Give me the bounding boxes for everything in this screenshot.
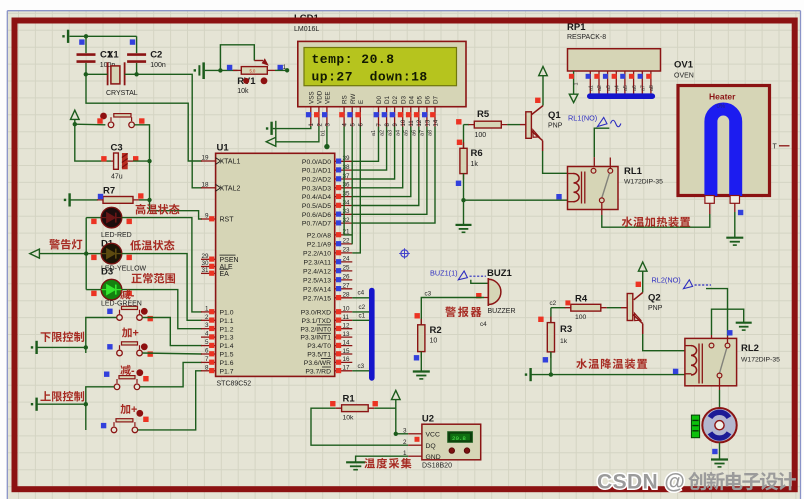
power terminal (Q1 collector) <box>539 67 548 76</box>
svg-text:BUZ1: BUZ1 <box>487 268 513 279</box>
svg-text:R7: R7 <box>103 185 115 196</box>
svg-text:14: 14 <box>433 119 439 126</box>
LCD pin 1 VSS <box>306 91 316 126</box>
svg-text:29: 29 <box>201 253 209 260</box>
svg-text:LM016L: LM016L <box>294 26 319 33</box>
svg-text:13: 13 <box>425 119 431 126</box>
wire: C1 / crystal left to XTAL1 <box>86 73 108 75</box>
U1 pin 15 P3.5/T1 <box>307 348 352 359</box>
wire: RS to P2.0 <box>344 127 352 235</box>
U1 pin 29 PSEN <box>201 253 239 264</box>
label 下限控制 <box>41 331 85 342</box>
LCD pin 5 RW <box>347 94 357 127</box>
svg-text:PNP: PNP <box>648 305 663 312</box>
RP1 pin 6 <box>620 71 629 94</box>
svg-text:RST: RST <box>220 217 235 224</box>
svg-text:BUZZER: BUZZER <box>488 308 516 315</box>
bus bar (P2/P3 nets) <box>369 291 375 378</box>
svg-text:11: 11 <box>343 314 350 321</box>
push button S4 加+ <box>111 427 117 433</box>
label 温度采集 <box>364 458 411 469</box>
svg-text:a1: a1 <box>589 85 595 91</box>
svg-text:10k: 10k <box>343 415 355 422</box>
svg-text:a6: a6 <box>412 130 418 136</box>
crystal X1 <box>107 62 109 85</box>
svg-text:-: - <box>131 290 135 302</box>
wire: ground rail to C1/C2 tops <box>70 35 137 37</box>
U1 pin 18 XTAL2 <box>201 181 240 192</box>
U1 pin 23 P2.2/A10 <box>303 247 352 258</box>
svg-text:P0.5/AD5: P0.5/AD5 <box>302 203 331 210</box>
svg-text:P1.0: P1.0 <box>220 310 234 317</box>
svg-text:XTAL2: XTAL2 <box>220 185 241 192</box>
wire: LCD D5 to P0.5 <box>352 127 419 206</box>
wire: button S1 to P1.4 <box>142 318 202 346</box>
svg-text:D1: D1 <box>384 95 391 104</box>
U1 pin 17 P3.7/RD <box>305 365 352 376</box>
RP1 pin 9 <box>646 71 655 94</box>
wire: heater right terminal to ground <box>734 203 736 212</box>
LCD pin 4 RS <box>339 95 349 126</box>
LED D3 (LED-YELLOW) <box>101 243 122 264</box>
svg-text:P2.2/A10: P2.2/A10 <box>303 251 331 258</box>
wire: reset button right / RST node <box>134 125 202 219</box>
svg-text:VDD: VDD <box>317 90 324 104</box>
svg-text:GND: GND <box>426 454 441 461</box>
svg-text:100: 100 <box>575 314 587 321</box>
wire: R1 left to DQ <box>311 408 408 445</box>
svg-text:23: 23 <box>343 247 351 254</box>
svg-text:P1.3: P1.3 <box>220 335 234 342</box>
potentiometer RV1 <box>254 60 263 62</box>
resistor R2 <box>420 319 422 358</box>
svg-text:CRYSTAL: CRYSTAL <box>106 90 138 97</box>
U1 pin 39 P0.0/AD0 <box>302 155 352 166</box>
svg-text:P0.0/AD0: P0.0/AD0 <box>302 159 331 166</box>
U1 pin 3 P1.2 <box>201 322 234 333</box>
svg-text:7: 7 <box>205 356 209 363</box>
wire: D3 cathode to P1.1 <box>122 254 202 321</box>
push button S2 加+ <box>117 350 123 356</box>
svg-text:RL2(NO): RL2(NO) <box>652 276 681 285</box>
U1 pin 19 XTAL1 <box>201 155 240 166</box>
label 上限控制 <box>40 391 84 402</box>
push button S1 减- <box>117 315 123 321</box>
U1 pin 10 P3.0/RXD <box>301 306 353 317</box>
svg-text:P0.1/AD1: P0.1/AD1 <box>302 168 331 175</box>
svg-text:10: 10 <box>430 338 438 345</box>
svg-text:R4: R4 <box>575 294 588 305</box>
svg-text:P2.0/A8: P2.0/A8 <box>307 233 331 240</box>
svg-text:VEE: VEE <box>325 91 332 104</box>
wire: power to reset button <box>75 123 106 126</box>
wire: P3.7 to bus, net c3 <box>352 370 369 372</box>
U1 pin 5 P1.4 <box>201 339 234 350</box>
U2 pin 3 VCC <box>403 428 440 439</box>
RP1 pin 4 <box>603 71 612 94</box>
ground terminal (crystal rail) <box>62 35 64 37</box>
svg-text:18: 18 <box>201 181 209 188</box>
U1 pin 28 P2.7/A15 <box>303 292 352 303</box>
svg-text:RL2: RL2 <box>741 343 759 354</box>
svg-text:31: 31 <box>201 267 209 274</box>
svg-text:RESPACK-8: RESPACK-8 <box>567 34 606 41</box>
svg-text:CSDN @: CSDN @ <box>597 471 685 494</box>
wire: VDD to power <box>276 126 319 142</box>
U1 pin 6 P1.5 <box>201 348 234 359</box>
wire: RW to P2.1 <box>351 127 353 244</box>
svg-text:RW: RW <box>350 94 357 104</box>
svg-text:temp: 20.8: temp: 20.8 <box>312 52 395 67</box>
LED D1 (LED-RED) <box>101 207 122 228</box>
svg-text:D3: D3 <box>101 267 113 278</box>
transistor Q2 <box>634 293 643 300</box>
wire: RL2 NO contact <box>706 289 728 336</box>
ground (oven) <box>726 237 743 239</box>
svg-text:25: 25 <box>343 265 351 272</box>
wire: P3.0 to bus, net c2 <box>352 311 369 313</box>
svg-text:Q2: Q2 <box>648 293 661 304</box>
resistor R7 <box>69 199 98 201</box>
svg-text:2: 2 <box>403 439 407 446</box>
wire: button S2 to P1.5 <box>142 353 202 354</box>
U1 pin 13 P3.3/INT1 <box>300 331 352 342</box>
svg-text:a2: a2 <box>597 85 603 91</box>
power terminal (U2 VCC) <box>392 390 401 399</box>
motor (cooling) <box>702 408 736 442</box>
svg-text:P2.7/A15: P2.7/A15 <box>303 295 331 302</box>
svg-text:up:27 down:18: up:27 down:18 <box>312 70 428 85</box>
wire: R4 to Q2 base <box>607 307 621 309</box>
svg-text:17: 17 <box>343 365 351 372</box>
svg-text:+: + <box>131 404 137 416</box>
svg-text:C3: C3 <box>111 143 123 154</box>
svg-text:P1.7: P1.7 <box>220 368 234 375</box>
U1 pin 2 P1.1 <box>201 314 234 325</box>
power terminal (LCD VDD) <box>266 137 276 146</box>
svg-text:a7: a7 <box>640 85 646 91</box>
svg-text:16: 16 <box>343 356 351 363</box>
label 减- (button 1) <box>120 289 135 301</box>
wire: VEE stub <box>326 126 328 147</box>
U1 pin 9 RST <box>201 213 234 224</box>
svg-text:W172DIP-35: W172DIP-35 <box>624 179 663 186</box>
svg-text:1k: 1k <box>560 338 568 345</box>
svg-text:P2.6/A14: P2.6/A14 <box>303 286 331 293</box>
svg-text:RL1(NO): RL1(NO) <box>568 114 597 123</box>
svg-text:R5: R5 <box>477 109 490 120</box>
svg-text:10: 10 <box>343 306 351 313</box>
push button (reset) <box>108 122 114 128</box>
svg-text:P0.4/AD4: P0.4/AD4 <box>302 194 331 201</box>
wire: ground rail to RL2 coil <box>551 374 685 376</box>
svg-text:P3.0/RXD: P3.0/RXD <box>301 310 331 317</box>
svg-text:VCC: VCC <box>426 431 440 438</box>
power terminal down (RP1 pin1) <box>569 94 578 102</box>
U1 pin 35 P0.4/AD4 <box>302 190 352 201</box>
svg-text:0%: 0% <box>717 104 726 110</box>
wire: LCD D3 to P0.3 <box>352 127 402 188</box>
ground (below R6) <box>463 200 465 225</box>
LCD pin 2 VDD <box>314 90 324 126</box>
U1 pin 36 P0.3/AD3 <box>302 182 352 193</box>
U1 pin 14 P3.4/T0 <box>307 339 352 350</box>
label 警报器 <box>445 306 481 317</box>
wire: RL2 common to motor <box>719 378 721 390</box>
LCD pin 12 D5 <box>414 95 424 126</box>
svg-text:a8: a8 <box>428 130 434 136</box>
svg-text:D4: D4 <box>408 95 415 104</box>
wire: R3 to ground rail <box>550 352 552 375</box>
svg-text:3: 3 <box>403 428 407 435</box>
wire: LCD D1 to P0.1 <box>352 127 386 171</box>
svg-text:c3: c3 <box>425 290 432 297</box>
svg-text:EA: EA <box>220 271 230 278</box>
ground terminal (下限控制) <box>31 346 33 348</box>
resistor R5 <box>464 124 470 126</box>
svg-text:1: 1 <box>205 305 209 312</box>
U2 buttons <box>449 448 454 453</box>
svg-text:X1: X1 <box>107 50 119 61</box>
wire: P2.7 to bus, net c4 <box>352 297 369 299</box>
svg-text:OVEN: OVEN <box>674 73 694 80</box>
U1 pin 26 P2.5/A13 <box>303 274 352 285</box>
wire: R5 to Q1 base <box>507 124 520 126</box>
svg-text:P3.5/T1: P3.5/T1 <box>307 352 331 359</box>
LCD pin 13 D6 <box>422 95 432 126</box>
svg-text:P2.5/A13: P2.5/A13 <box>303 278 331 285</box>
U1 pin 21 P2.0/A8 <box>307 229 352 240</box>
LCD pin 7 D0 <box>374 95 384 126</box>
svg-text:RL1: RL1 <box>624 166 643 177</box>
wire: D1 cathode to P1.0 <box>122 218 202 312</box>
svg-text:a6: a6 <box>632 85 638 91</box>
resistor R1 <box>336 407 375 409</box>
svg-text:R1: R1 <box>343 394 356 405</box>
ground terminal (RV1 left) <box>194 69 196 71</box>
wire: RV1 wiper loop <box>220 45 254 71</box>
svg-text:DS18B20: DS18B20 <box>422 463 452 470</box>
svg-text:a1: a1 <box>371 130 377 136</box>
RP1 pin 3 <box>594 71 603 94</box>
LCD pin 14 D7 <box>430 95 440 126</box>
label 正常范围 <box>131 273 175 284</box>
svg-text:P2.1/A9: P2.1/A9 <box>307 242 331 249</box>
wire: VSS to ground <box>273 126 311 129</box>
svg-text:OV1: OV1 <box>674 60 694 71</box>
svg-text:P1.5: P1.5 <box>220 352 234 359</box>
svg-text:47u: 47u <box>111 174 123 181</box>
svg-text:P3.1/TXD: P3.1/TXD <box>302 318 332 325</box>
relay RL1 <box>568 167 619 210</box>
svg-text:R2: R2 <box>430 325 442 336</box>
svg-text:D2: D2 <box>392 95 399 104</box>
wire: C2 / crystal right to XTAL2 <box>125 73 137 75</box>
svg-text:PSEN: PSEN <box>220 257 239 264</box>
svg-text:20.8: 20.8 <box>452 435 466 442</box>
ground (R2) <box>413 370 430 372</box>
svg-text:26: 26 <box>343 274 351 281</box>
wire: button S4 to P1.7 <box>138 371 202 430</box>
RP1 pin 7 <box>629 71 638 94</box>
svg-text:D7: D7 <box>433 95 440 104</box>
U1 pin 38 P0.1/AD1 <box>302 164 352 175</box>
heater element <box>711 109 736 196</box>
U1 pin 11 P3.1/TXD <box>302 314 353 325</box>
svg-text:D5: D5 <box>416 95 423 104</box>
label 水温加热装置 <box>622 216 690 227</box>
capacitor C1 <box>85 36 87 53</box>
svg-text:c1: c1 <box>359 312 366 319</box>
heater terminals <box>705 196 714 204</box>
wire: Q2 emitter to RL2 coil <box>642 324 644 334</box>
wire: R6 to ground / relay coil <box>463 174 465 201</box>
push button S3 减- <box>114 384 120 390</box>
svg-text:P2.3/A11: P2.3/A11 <box>304 260 332 267</box>
U2 pin 2 DQ <box>403 439 436 450</box>
wire: LCD D4 to P0.4 <box>352 127 411 197</box>
U1 pin 7 P1.6 <box>201 356 234 367</box>
ground (U2) <box>346 461 365 463</box>
svg-text:6: 6 <box>205 348 209 355</box>
wire: LCD D6 to P0.6 <box>352 127 427 215</box>
svg-text:5.0: 5.0 <box>250 69 256 74</box>
wire: U2 GND to ground <box>356 456 409 462</box>
svg-text:P3.7/RD: P3.7/RD <box>305 368 331 375</box>
svg-text:P3.4/T0: P3.4/T0 <box>307 343 331 350</box>
svg-text:a2: a2 <box>379 130 385 136</box>
label 减- (button 3) <box>120 365 135 377</box>
capacitor C2 <box>136 36 138 53</box>
wire: LED anode rail <box>39 253 86 255</box>
svg-text:P3.2/INT0: P3.2/INT0 <box>300 326 331 333</box>
svg-text:Heater: Heater <box>709 92 736 102</box>
svg-text:C2: C2 <box>150 50 162 61</box>
wire: RL1 common to heater <box>601 203 603 215</box>
wire: E to P2.2 <box>352 127 360 253</box>
svg-text:13: 13 <box>343 331 351 338</box>
U1 pin 8 P1.7 <box>201 364 234 375</box>
svg-text:P1.2: P1.2 <box>220 326 234 333</box>
wire: C3 right to RST node <box>133 160 150 162</box>
LCD pin net labels <box>321 130 434 136</box>
svg-text:c3: c3 <box>358 363 365 370</box>
bus bar (RP1) <box>590 93 653 99</box>
origin marker <box>401 250 408 257</box>
label 水温降温装置 <box>576 358 647 369</box>
svg-text:D6: D6 <box>425 95 432 104</box>
svg-text:2: 2 <box>205 314 209 321</box>
svg-text:1k: 1k <box>471 161 479 168</box>
svg-text:c4: c4 <box>358 290 365 297</box>
svg-text:a5: a5 <box>404 130 410 136</box>
LCD pin 10 D3 <box>398 95 408 126</box>
label 加+ (button 2) <box>122 327 139 339</box>
RP1 pin 8 <box>638 71 647 94</box>
svg-text:+: + <box>133 328 139 340</box>
LCD pin 3 VEE <box>322 91 332 126</box>
svg-text:U1: U1 <box>217 143 230 154</box>
RP1 pin 5 <box>612 71 621 94</box>
wire: RL1 NO contact <box>594 128 609 157</box>
microcontroller U1 body <box>216 153 335 376</box>
svg-text:a8: a8 <box>649 85 655 91</box>
svg-text:a4: a4 <box>395 130 401 136</box>
wire: R5/R6 junction <box>463 125 465 149</box>
label 高温状态 <box>136 204 180 215</box>
LCD screen <box>304 48 457 86</box>
svg-text:T: T <box>773 144 778 151</box>
U1 pin 24 P2.3/A11 <box>304 256 353 267</box>
U1 pin 12 P3.2/INT0 <box>300 323 352 334</box>
svg-text:15: 15 <box>343 348 351 355</box>
svg-text:P0.7/AD7: P0.7/AD7 <box>302 221 331 228</box>
transistor Q1 <box>531 106 543 116</box>
relay RL2 <box>685 338 737 385</box>
LCD pin 8 D1 <box>382 95 392 126</box>
svg-text:12: 12 <box>343 323 351 330</box>
resistor R3 <box>550 317 552 358</box>
svg-text:RS: RS <box>342 95 349 104</box>
RP1 pin 2 <box>586 71 595 94</box>
svg-text:P0.3/AD3: P0.3/AD3 <box>302 185 331 192</box>
svg-text:P1.1: P1.1 <box>220 318 234 325</box>
svg-text:22: 22 <box>343 238 351 245</box>
svg-text:a5: a5 <box>623 85 629 91</box>
svg-text:24: 24 <box>343 256 351 263</box>
svg-text:8: 8 <box>205 364 209 371</box>
svg-text:28: 28 <box>343 292 351 299</box>
svg-text:R6: R6 <box>471 148 483 159</box>
ground (motor) <box>711 458 728 460</box>
svg-text:c4: c4 <box>480 321 487 328</box>
svg-text:RP1: RP1 <box>567 22 586 33</box>
svg-text:P1.4: P1.4 <box>220 343 234 350</box>
svg-text:P3.6/WR: P3.6/WR <box>304 360 331 367</box>
svg-text:STC89C52: STC89C52 <box>217 381 252 388</box>
U2 pin 1 GND <box>403 450 441 461</box>
svg-text:12: 12 <box>417 119 423 126</box>
svg-text:R3: R3 <box>560 324 572 335</box>
U1 pin 4 P1.3 <box>201 331 234 342</box>
label 加+ (button 4) <box>120 404 137 416</box>
svg-text:VSS: VSS <box>308 91 315 104</box>
wire: ground to RV1 left <box>205 69 238 71</box>
svg-text:a3: a3 <box>387 130 393 136</box>
svg-text:BUZ1(1): BUZ1(1) <box>430 268 458 277</box>
svg-text:P2.4/A12: P2.4/A12 <box>303 269 331 276</box>
svg-text:c2: c2 <box>550 300 557 307</box>
power terminal 警告灯 arrow <box>30 249 40 258</box>
svg-text:3: 3 <box>205 322 209 329</box>
svg-text:E: E <box>358 100 365 104</box>
LCD pin 9 D2 <box>390 95 400 126</box>
wire: R7 right to RST node <box>139 199 150 201</box>
svg-text:9: 9 <box>205 213 209 220</box>
U1 pin 34 P0.5/AD5 <box>302 199 352 210</box>
svg-text:a7: a7 <box>420 130 426 136</box>
ground terminal (LCD VSS) <box>266 127 268 129</box>
svg-text:W172DIP-35: W172DIP-35 <box>741 357 780 364</box>
U1 pin 37 P0.2/AD2 <box>302 173 352 184</box>
svg-text:14: 14 <box>343 339 351 346</box>
capacitor C3 <box>75 124 111 161</box>
svg-text:XTAL1: XTAL1 <box>220 159 241 166</box>
U1 pin 30 ALE <box>201 260 233 271</box>
svg-text:D0: D0 <box>376 95 383 104</box>
svg-text:U2: U2 <box>422 414 434 425</box>
motor speed indicator <box>691 415 699 438</box>
